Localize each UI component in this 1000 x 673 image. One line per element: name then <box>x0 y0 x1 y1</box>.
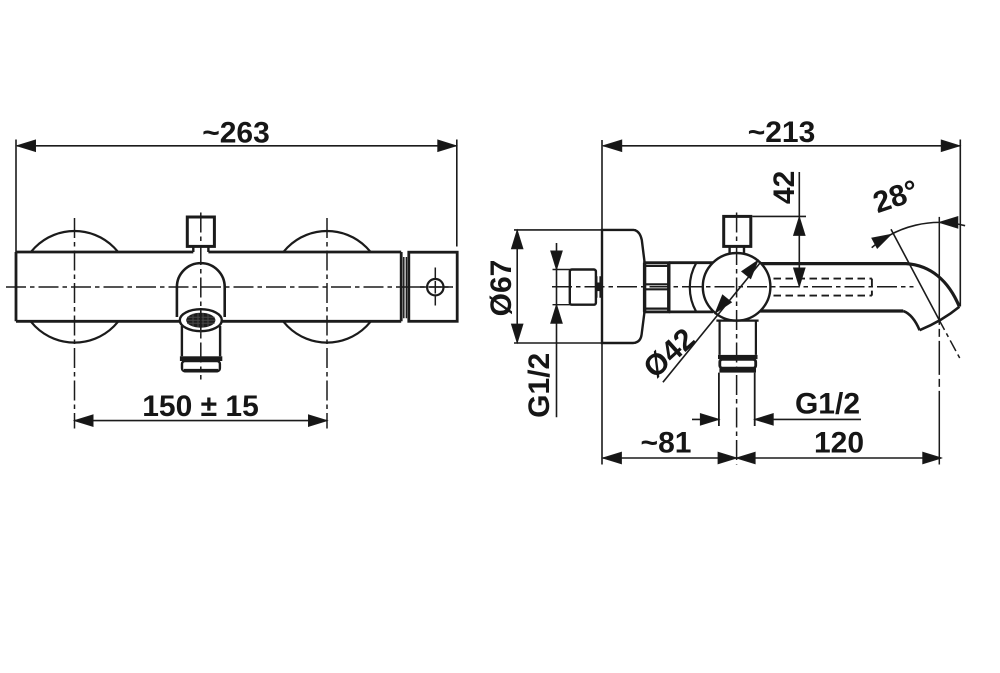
dim ~213 extension right <box>959 140 961 307</box>
spout inner bend <box>903 311 919 330</box>
dim ~263 extension lines <box>16 140 457 253</box>
dim Ø67 extension lines <box>514 230 636 343</box>
svg-text:150 ± 15: 150 ± 15 <box>142 390 259 423</box>
wall tailpiece G1/2 <box>570 270 596 305</box>
dim G1/2 shower arrows <box>700 414 719 425</box>
separator strip <box>404 257 407 318</box>
dim G1/2 wall arrows <box>551 251 562 270</box>
dim 150±15 arrows <box>75 415 94 426</box>
angle vertical reference <box>938 217 940 465</box>
spout body fill <box>750 264 959 331</box>
dim 42 extension line <box>752 215 806 217</box>
body fill <box>16 252 401 321</box>
dim ~263 arrows <box>17 140 36 151</box>
centerline overlay through aerator <box>200 311 202 334</box>
horizontal centerline left view <box>6 286 453 288</box>
knob neck <box>193 246 208 252</box>
dim ~213 extension left <box>601 140 603 465</box>
retainer ring dark bottom <box>184 369 218 372</box>
spout mouth rim <box>920 307 960 330</box>
diverter shoulder <box>716 320 758 322</box>
dim G1/2 wall leader <box>556 243 558 417</box>
dim 150±15 line <box>75 420 328 422</box>
spout dome <box>177 263 225 316</box>
left wall flange circle <box>19 231 131 343</box>
spout bottom edge <box>750 309 903 312</box>
angle diagonal leg <box>891 229 939 319</box>
cap screw circle <box>427 279 443 295</box>
svg-text:G1/2: G1/2 <box>795 388 860 421</box>
aerator outer ring <box>180 309 222 331</box>
dim ~213 line <box>603 145 960 147</box>
left circle centerline <box>74 218 76 429</box>
nut facet lines <box>646 266 668 309</box>
right circle centerline <box>326 218 328 429</box>
dim 42 line <box>798 172 800 287</box>
dim Ø42 leader <box>663 263 760 383</box>
horizontal centerline right view <box>552 286 914 288</box>
dim ~263 line <box>17 145 456 147</box>
right wall flange circle <box>271 231 383 343</box>
connector tube <box>669 263 713 312</box>
dim ~213 arrows <box>603 140 622 151</box>
spout mouth axis <box>939 319 961 359</box>
aerator mesh <box>186 313 215 328</box>
dim G1/2 shower line <box>692 418 861 420</box>
aerator retainer ring <box>182 361 220 371</box>
aerator dark band <box>180 356 222 361</box>
svg-text:28°: 28° <box>869 174 923 220</box>
dim Ø67 arrows <box>512 230 523 249</box>
valve body circle <box>703 253 771 321</box>
diverter knob (front) <box>187 217 214 246</box>
cap screw vertical centerline <box>434 268 436 306</box>
wall flange side profile <box>602 230 645 343</box>
vertical centerline valve <box>736 213 738 465</box>
svg-text:42: 42 <box>768 171 801 204</box>
cap crosshair horizontal <box>416 286 453 288</box>
dim Ø67 line <box>516 230 518 342</box>
tube-to-valve transition arc <box>690 263 697 312</box>
spout lower cylinder <box>182 326 220 356</box>
dim ~81/120 arrows <box>603 452 622 463</box>
svg-text:120: 120 <box>814 427 864 460</box>
diverter dark band <box>718 355 758 359</box>
spout top edge and bend <box>750 264 959 307</box>
knob neck side <box>730 246 744 252</box>
shower pipe <box>719 373 755 426</box>
dim ~81/120 line <box>603 457 941 459</box>
nut edges thick <box>645 263 669 312</box>
svg-text:~263: ~263 <box>202 117 270 150</box>
svg-text:Ø67: Ø67 <box>485 260 518 317</box>
angle arc 28 <box>872 222 965 247</box>
knob (side) <box>724 216 751 246</box>
body outline with neck gap on top <box>16 252 401 321</box>
spout hidden bore <box>774 279 872 296</box>
tailpiece neck <box>597 276 601 298</box>
tailpiece extension lines <box>553 270 572 305</box>
diverter dark band 2 <box>719 368 756 372</box>
svg-text:~213: ~213 <box>748 116 816 149</box>
diverter retainer ring <box>720 359 756 368</box>
dim Ø42 arrows <box>742 257 763 279</box>
svg-text:Ø42: Ø42 <box>638 322 702 384</box>
svg-text:G1/2: G1/2 <box>523 353 556 418</box>
tailpiece thread bar <box>597 283 601 292</box>
svg-text:~81: ~81 <box>641 427 692 460</box>
end cap <box>409 252 457 321</box>
spout centerline <box>200 213 202 380</box>
diverter body <box>720 321 756 355</box>
dim 42 arrows <box>794 217 805 236</box>
connection nut <box>645 263 669 312</box>
angle arrows <box>939 217 958 228</box>
